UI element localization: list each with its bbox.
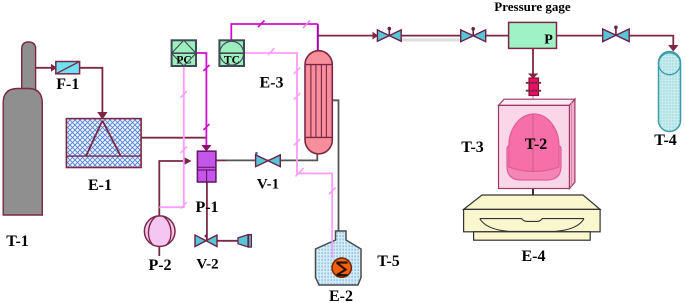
wire E-3 top line to valve <box>318 35 373 37</box>
valve V-2 <box>195 235 217 247</box>
wire valve to valve <box>401 35 461 37</box>
svg-text:V-1: V-1 <box>257 177 279 193</box>
svg-text:TC: TC <box>224 55 240 67</box>
wire T-1 to F-1 <box>36 67 53 69</box>
top valve 3 <box>603 26 630 42</box>
bath T-3 (3D box) <box>499 99 575 188</box>
wire P-2 bottom stub <box>158 247 160 257</box>
wire gage to valve <box>557 35 603 37</box>
signal TC to E-3 top (magenta) <box>231 24 317 40</box>
fitting above T-3 <box>526 78 541 96</box>
filter F-1 <box>56 62 80 74</box>
pump P-2 <box>144 216 175 247</box>
wire P-1 bottom to V-2 <box>206 182 208 240</box>
controller PC <box>172 40 196 66</box>
column E-3 <box>305 51 332 154</box>
svg-text:T-2: T-2 <box>525 136 548 153</box>
controller TC <box>219 40 244 66</box>
svg-text:E-2: E-2 <box>329 288 353 303</box>
arrow into F-1 <box>51 64 57 72</box>
wire P-1 right stub <box>216 159 226 161</box>
vent cone <box>238 235 251 247</box>
arrow into E-1 <box>97 112 107 120</box>
balance E-4 <box>464 195 600 240</box>
svg-text:V-2: V-2 <box>196 257 218 273</box>
svg-text:T-5: T-5 <box>377 253 400 270</box>
wire E-1 to P-1 riser <box>141 137 206 139</box>
stirrer <box>331 233 333 259</box>
arrow into P-1 left <box>184 157 192 165</box>
svg-text:PC: PC <box>176 55 191 67</box>
wire gage down to fitting <box>532 48 534 74</box>
wire F-1 to E-1 top <box>80 68 103 113</box>
pump P-1 <box>197 151 216 182</box>
gray pipe highlight <box>401 39 461 42</box>
valve V-1 <box>255 152 258 155</box>
wire valve to T-4 <box>629 36 673 46</box>
svg-text:E-4: E-4 <box>522 248 546 265</box>
vessel T-2 <box>507 114 561 180</box>
svg-text:T-1: T-1 <box>6 233 29 250</box>
wire V-2 to vent cone <box>217 240 238 242</box>
arrow into fitting <box>528 74 539 79</box>
svg-text:T-3: T-3 <box>461 139 484 156</box>
arrow into T-4 <box>668 45 678 52</box>
svg-text:T-4: T-4 <box>654 132 677 149</box>
heat exchanger E-1 <box>66 119 141 168</box>
top valve 1 <box>377 27 401 41</box>
pressure gage <box>509 22 557 48</box>
svg-text:P: P <box>544 33 553 48</box>
svg-text:P-1: P-1 <box>195 199 218 216</box>
flask E-2 <box>316 231 362 285</box>
svg-text:P-2: P-2 <box>148 257 171 274</box>
svg-text:F-1: F-1 <box>56 76 79 93</box>
wire P-1 to V-1 to E-3 bottom (gray) <box>226 150 317 160</box>
wire E-3 side outlet to E-2 flask (gray) <box>329 100 338 231</box>
signal PC to P-2 line (light pink) <box>159 66 184 207</box>
bottle T-4 <box>659 52 681 132</box>
signal PC to P-1 (magenta) <box>196 53 207 147</box>
arrow before valve <box>373 32 379 40</box>
top valve 2 <box>461 27 486 42</box>
signal TC to E-2 (light pink) <box>244 53 332 258</box>
wire valve to pressure gage <box>486 35 509 37</box>
wire T-3 to balance stub <box>532 188 534 197</box>
cylinder T-1 <box>22 42 36 90</box>
thermowell line into T-2 <box>532 96 534 173</box>
svg-text:E-1: E-1 <box>88 177 112 194</box>
svg-text:Pressure gage: Pressure gage <box>494 0 571 14</box>
svg-text:E-3: E-3 <box>260 75 284 92</box>
wire P-2 suction / feed to P-1 <box>159 161 183 216</box>
